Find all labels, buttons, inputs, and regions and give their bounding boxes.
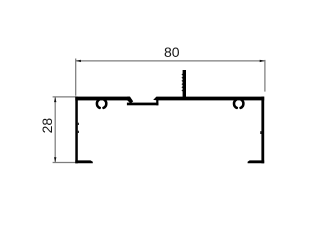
profile left foot — [75, 160, 93, 163]
dimension 28 extension line top — [53, 96, 77, 98]
dimension 80 arrow right — [260, 60, 265, 62]
profile top plate left segment — [75, 97, 130, 101]
profile left wall — [75, 97, 78, 164]
profile right wall nub — [260, 131, 261, 134]
svg-text:28: 28 — [39, 118, 55, 134]
dimension 28 arrow bottom — [54, 157, 56, 162]
profile right foot — [248, 160, 265, 163]
screw boss left, left claw — [97, 100, 100, 108]
dimension 28 extension line bottom — [53, 162, 77, 164]
profile top plate right segment — [153, 97, 264, 101]
screw boss right, left claw — [234, 100, 237, 108]
dimension 80 extension line left — [75, 59, 77, 96]
dimension 80 extension line right — [264, 60, 266, 92]
dimension 28 line — [54, 97, 56, 163]
profile groove left lip — [127, 97, 133, 104]
profile groove floor — [127, 103, 158, 106]
screw boss left, right claw — [104, 100, 107, 108]
screw boss right, right claw — [241, 100, 244, 108]
profile right wall — [261, 97, 264, 164]
profile fin — [183, 70, 186, 98]
profile left wall nub lower — [78, 131, 79, 133]
profile groove right wall — [156, 98, 158, 105]
dimension 80 line — [76, 60, 265, 62]
dimension 80 arrow left — [76, 60, 81, 62]
svg-text:80: 80 — [164, 44, 180, 60]
profile fin serrations — [182, 74, 183, 92]
profile left wall nub upper — [78, 123, 79, 125]
dimension 28 arrow top — [54, 97, 56, 102]
